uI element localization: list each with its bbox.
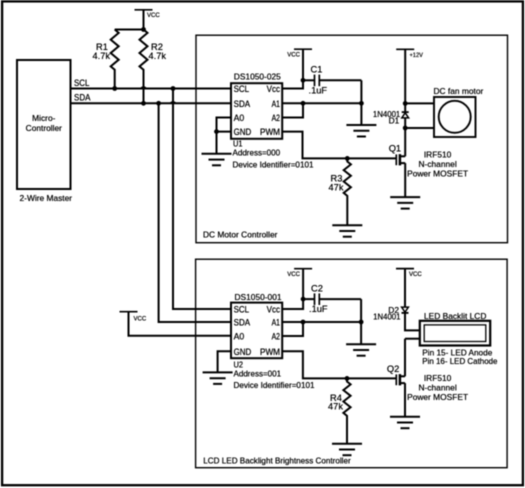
svg-text:VCC: VCC <box>409 271 422 278</box>
svg-text:Vcc: Vcc <box>267 84 281 94</box>
svg-text:SCL: SCL <box>234 305 250 315</box>
svg-text:DS1050-001: DS1050-001 <box>235 292 282 302</box>
junction dot R4 tap <box>345 376 350 381</box>
junction dot SCL branch <box>171 86 176 91</box>
junction dot A0/GND <box>214 129 219 134</box>
svg-text:Micro-: Micro- <box>32 113 55 123</box>
junction dot SDA branch <box>156 101 161 106</box>
wire U2 Vcc up to VCC <box>282 269 303 309</box>
wire U1 GND to gnd <box>217 132 232 154</box>
wire U1 A0 to gnd rail <box>217 118 232 132</box>
svg-text:.1uF: .1uF <box>309 86 328 96</box>
svg-text:4.7k: 4.7k <box>93 51 111 61</box>
ground Q1 source <box>390 197 420 209</box>
wire SDA: micro to U1 <box>71 102 232 104</box>
svg-text:VCC: VCC <box>147 12 160 19</box>
junction dot A1/C1/gnd <box>359 101 364 106</box>
svg-text:DS1050-025: DS1050-025 <box>234 72 281 82</box>
svg-text:47k: 47k <box>328 402 343 412</box>
svg-text:A1: A1 <box>272 318 280 328</box>
wire hop: SCL branch over SDA <box>169 101 176 103</box>
svg-text:1N4001: 1N4001 <box>373 312 401 322</box>
wire U1 PWM to Q1 gate <box>282 132 395 159</box>
svg-text:Power MOSFET: Power MOSFET <box>407 169 468 179</box>
svg-text:Q1: Q1 <box>389 144 401 154</box>
wire LCD cathode stub <box>405 338 419 340</box>
resistor R2 4.7k <box>140 30 167 104</box>
svg-text:VCC: VCC <box>134 316 147 323</box>
ground R3 <box>332 225 362 237</box>
wire R1-R2 top link <box>115 29 144 31</box>
junction dot A1/A2 <box>301 101 306 106</box>
wire U2 A2 up to A1 <box>282 322 303 336</box>
wire D1 vertical <box>404 103 406 128</box>
junction dot R3 tap <box>345 156 350 161</box>
svg-text:C2: C2 <box>311 283 323 293</box>
VCC supply above C2 <box>287 269 312 279</box>
svg-text:Controller: Controller <box>26 123 63 133</box>
svg-text:Q2: Q2 <box>387 364 399 374</box>
svg-text:SDA: SDA <box>74 93 91 103</box>
svg-text:Device Identifier=0101: Device Identifier=0101 <box>233 160 314 170</box>
svg-text:GND: GND <box>234 127 252 137</box>
junction dot A1/A2 U2 <box>301 320 306 325</box>
svg-text:SDA: SDA <box>234 318 251 328</box>
wire Q2 drain up to LCD cathode stub <box>404 339 406 377</box>
ground Q2 source <box>390 417 420 429</box>
resistor R1 4.7k <box>93 30 119 89</box>
svg-text:A2: A2 <box>272 113 280 123</box>
wire Q1 drain up <box>404 128 406 156</box>
junction dot R1/SCL <box>112 86 117 91</box>
wire SCL branch down to U2 <box>173 89 232 310</box>
diode D2 1N4001 <box>373 305 408 322</box>
capacitor C2 .1uF <box>303 283 361 314</box>
svg-text:Address=001: Address=001 <box>234 368 282 378</box>
svg-text:+12V: +12V <box>410 52 424 59</box>
svg-text:4.7k: 4.7k <box>149 51 167 61</box>
wire down to ground <box>360 103 362 125</box>
LCD LED Backlight section box <box>196 259 508 468</box>
svg-text:VCC: VCC <box>287 271 300 278</box>
wire motor bottom <box>405 127 434 129</box>
junction dot VCC/R2 top <box>141 27 146 32</box>
ground R4 <box>332 444 362 456</box>
svg-text:SDA: SDA <box>234 99 251 109</box>
wire U2 GND to gnd <box>218 351 232 372</box>
wire Q1 source down <box>404 163 406 197</box>
LCD module (LED Backlit LCD) <box>420 311 498 366</box>
junction dot C2 tap <box>301 297 306 302</box>
VCC supply for U2 A0 <box>120 312 232 336</box>
wire U1 A2 up to A1 <box>282 103 303 117</box>
wire U2 PWM to Q2 gate <box>282 351 395 378</box>
svg-text:DC Motor Controller: DC Motor Controller <box>203 230 278 240</box>
ground U1 <box>202 154 232 166</box>
resistor R4 47k <box>328 378 351 443</box>
+12V supply <box>396 49 423 103</box>
svg-text:Vcc: Vcc <box>267 305 281 315</box>
op IC U2 DS1050-001 <box>231 292 315 390</box>
wire U1 Vcc up to VCC <box>282 49 303 88</box>
svg-text:47k: 47k <box>329 182 344 192</box>
svg-text:PWM: PWM <box>260 347 280 357</box>
wire hop: R2 over SCL <box>140 86 147 88</box>
transistor Q2 IRF510 n-channel MOSFET <box>387 364 405 385</box>
wire Q2 source down <box>404 383 406 417</box>
svg-text:A1: A1 <box>272 99 280 109</box>
ground A1/A2/C2 <box>346 344 376 356</box>
svg-text:.1uF: .1uF <box>309 304 328 314</box>
svg-text:2-Wire Master: 2-Wire Master <box>20 193 73 203</box>
svg-text:Device Identifier=0101: Device Identifier=0101 <box>234 380 315 390</box>
svg-text:Pin 16- LED Cathode: Pin 16- LED Cathode <box>422 356 498 366</box>
ground A1/A2/C1 <box>346 125 376 137</box>
micro-controller box (2-Wire Master) <box>17 60 71 189</box>
svg-text:IRF510: IRF510 <box>424 373 452 383</box>
transistor Q1 IRF510 n-channel MOSFET <box>389 144 406 166</box>
svg-text:Address=000: Address=000 <box>233 148 281 158</box>
svg-text:A2: A2 <box>272 332 280 342</box>
wire C1 right down to A1 rail <box>360 80 362 103</box>
wire SDA branch down to U2 <box>159 103 232 322</box>
wire D2 to LCD anode stub <box>405 313 419 331</box>
svg-text:SCL: SCL <box>234 84 250 94</box>
svg-text:C1: C1 <box>311 65 323 75</box>
junction dot D1 top <box>403 101 408 106</box>
resistor R3 47k <box>329 158 351 225</box>
wire SCL: micro to U1 <box>71 88 232 90</box>
VCC supply above D2 <box>396 269 422 308</box>
svg-text:LED Backlit LCD: LED Backlit LCD <box>424 311 486 321</box>
svg-text:DC fan motor: DC fan motor <box>434 86 484 96</box>
wire C2 right down to A1 rail <box>360 299 362 322</box>
svg-text:N-channel: N-channel <box>419 383 457 393</box>
svg-text:VCC: VCC <box>287 52 300 59</box>
svg-text:D1: D1 <box>389 115 400 125</box>
wire U2 A1 to gnd rail <box>282 321 361 323</box>
junction dot R2/SDA <box>141 101 146 106</box>
svg-text:PWM: PWM <box>260 127 280 137</box>
junction dot D1 bottom <box>403 126 408 131</box>
wire down to ground <box>360 322 362 344</box>
op IC U1 DS1050-025 <box>231 72 314 170</box>
VCC supply for pull-ups <box>135 10 161 30</box>
svg-text:LCD LED Backlight Brightness C: LCD LED Backlight Brightness Controller <box>203 455 351 465</box>
DC Motor Controller section box <box>196 35 508 243</box>
svg-text:N-channel: N-channel <box>419 159 457 169</box>
svg-text:GND: GND <box>234 347 252 357</box>
svg-text:SCL: SCL <box>74 78 89 88</box>
svg-text:Power MOSFET: Power MOSFET <box>407 392 468 402</box>
svg-text:IRF510: IRF510 <box>424 149 452 159</box>
junction dot A1/C2/gnd <box>359 320 364 325</box>
VCC supply above C1 <box>287 49 312 58</box>
svg-text:A0: A0 <box>234 332 245 342</box>
svg-text:A0: A0 <box>234 113 245 123</box>
wire U1 A1 to gnd rail <box>282 102 361 104</box>
diode D1 1N4001 <box>373 109 409 126</box>
ground U2 <box>203 372 233 384</box>
junction dot C1 tap <box>301 78 306 83</box>
capacitor C1 .1uF <box>303 65 361 96</box>
motor M1 (DC fan motor) <box>434 86 484 137</box>
wire motor top <box>405 102 434 104</box>
